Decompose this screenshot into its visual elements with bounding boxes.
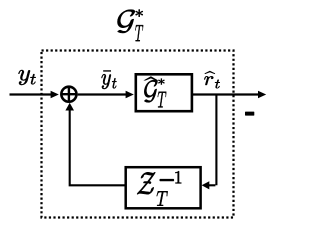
wire summing junction to block Ghat xyxy=(78,93,127,95)
arrowhead into block Ghat xyxy=(126,91,134,99)
label y_t xyxy=(18,70,35,85)
label rhat_t xyxy=(204,71,219,88)
feedback wire: Z block left side to below summing junction xyxy=(70,110,126,185)
input wire y_t xyxy=(10,93,52,95)
feedback wire: junction down right side xyxy=(215,94,217,186)
block U1: hat-script-G *_T xyxy=(136,74,192,111)
arrowhead into summing junction xyxy=(51,91,59,99)
dashed system boundary box G*_T xyxy=(42,51,234,218)
title label script-G *_T above box xyxy=(117,9,143,41)
output arrowhead xyxy=(258,91,266,99)
block Z label script Z + minus + 1 + T xyxy=(137,171,181,206)
block Z_T^-1 xyxy=(126,167,201,208)
feedback wire: into Z block right side xyxy=(209,184,215,186)
output wire rhat_t xyxy=(192,93,258,95)
block U1 label hat + script G + * + T xyxy=(143,76,166,107)
summing junction (circle with plus) xyxy=(61,87,76,102)
minus sign at output xyxy=(245,112,254,116)
arrowhead into Z block xyxy=(202,181,210,189)
arrowhead up into summing junction xyxy=(65,103,74,111)
label ybar_t xyxy=(101,71,116,89)
